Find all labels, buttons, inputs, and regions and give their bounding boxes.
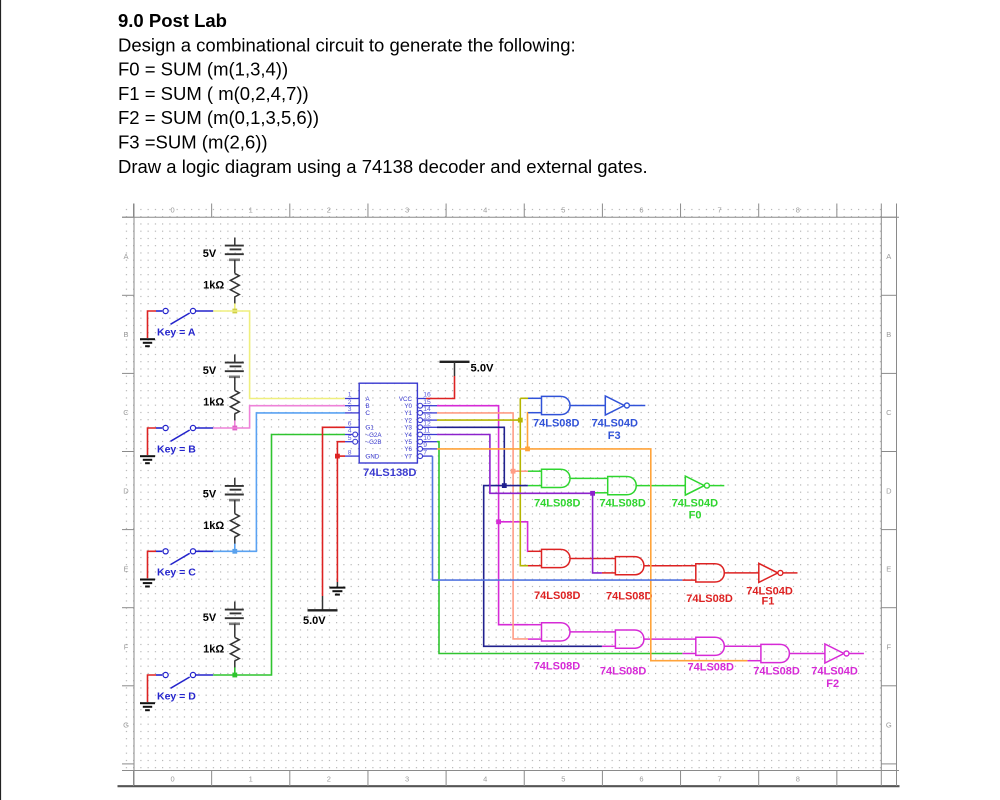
svg-text:Key = A: Key = A — [157, 326, 196, 338]
svg-text:C: C — [123, 408, 129, 417]
svg-text:74LS08D: 74LS08D — [753, 665, 800, 677]
wire F1 inverter output — [783, 572, 798, 574]
switch J (D) Key = D — [156, 672, 213, 688]
svg-text:1kΩ: 1kΩ — [203, 644, 224, 656]
svg-text:16: 16 — [423, 392, 431, 399]
ground symbol (D switch) — [140, 703, 155, 710]
svg-text:Design a combinational circuit: Design a combinational circuit to genera… — [118, 34, 576, 55]
svg-text:~G2A: ~G2A — [366, 432, 383, 439]
inverter 74LS04D (F1 output) — [759, 563, 783, 582]
svg-text:0: 0 — [170, 775, 174, 784]
svg-text:74LS04D: 74LS04D — [811, 665, 858, 677]
svg-text:9.0 Post Lab: 9.0 Post Lab — [118, 10, 227, 31]
svg-text:74LS08D: 74LS08D — [600, 665, 647, 677]
battery V (B chain) 5V — [225, 355, 244, 391]
wire net Y5 (decoder pin10 to F2 AND3) — [437, 442, 682, 654]
wire F3 AND to inverter — [570, 405, 605, 407]
svg-text:E: E — [123, 564, 128, 573]
decoder U1 left pin stubs and numbers — [345, 392, 359, 457]
wire net A : switch to decoder — [213, 311, 345, 399]
svg-text:Y3: Y3 — [404, 425, 412, 432]
svg-text:F0 = SUM (m(1,3,4)): F0 = SUM (m(1,3,4)) — [118, 59, 288, 80]
decoder U1 pin name labels — [366, 396, 413, 461]
svg-text:Key = D: Key = D — [157, 690, 196, 702]
wire net Y2 branch to F3 AND — [520, 397, 528, 399]
wire F3 inverter output — [629, 405, 645, 407]
ruler numbers top — [170, 206, 799, 215]
inverter 74LS04D (F0 output) — [685, 476, 709, 495]
svg-text:F1: F1 — [762, 595, 775, 607]
wire net Y1 branch to F0 AND1 — [513, 470, 528, 472]
junction Y0 — [496, 519, 501, 524]
wire net Y1 (decoder pin14 to F0 AND1 / F2 AND1) — [437, 413, 528, 639]
junction node (A) — [232, 309, 237, 314]
svg-text:0: 0 — [170, 206, 174, 215]
svg-text:1kΩ: 1kΩ — [203, 280, 224, 292]
junction GND net — [335, 454, 340, 459]
wire ground to switch (C) — [148, 551, 157, 578]
svg-text:6: 6 — [639, 206, 643, 215]
svg-text:A: A — [886, 252, 891, 261]
wire net Y6 branch to F3 AND — [527, 413, 530, 449]
svg-text:Key = B: Key = B — [157, 443, 196, 455]
5.0V power source (bottom) — [308, 596, 338, 610]
svg-text:5V: 5V — [203, 488, 217, 500]
svg-text:B: B — [366, 403, 370, 410]
svg-text:D: D — [886, 486, 892, 495]
AND gate 74LS08D (F0 stage 2) — [594, 477, 636, 495]
wire F1 AND3 out to inverter — [724, 572, 759, 574]
wire F0 AND2 out to inverter — [636, 485, 685, 487]
ruler letters left — [123, 252, 129, 730]
document heading text block — [118, 10, 648, 177]
svg-text:2: 2 — [327, 775, 331, 784]
svg-text:4: 4 — [483, 206, 487, 215]
AND gate 74LS08D (F2 stage 1) — [528, 623, 570, 641]
svg-text:5: 5 — [561, 775, 565, 784]
svg-text:F3: F3 — [608, 430, 621, 442]
svg-text:74LS08D: 74LS08D — [534, 661, 581, 673]
svg-text:1: 1 — [249, 206, 253, 215]
svg-text:5V: 5V — [203, 248, 217, 260]
switch J (A) Key = A — [156, 308, 213, 324]
ground symbol (decoder GND) — [329, 582, 345, 595]
svg-text:7: 7 — [718, 775, 722, 784]
svg-text:74LS08D: 74LS08D — [534, 497, 581, 509]
wire net Y7 (decoder pin7 to F1 AND3) — [433, 456, 683, 580]
svg-text:Y7: Y7 — [404, 453, 412, 460]
svg-text:15: 15 — [423, 399, 431, 406]
ruler numbers bottom — [170, 775, 799, 784]
AND gate 74LS08D (F2 stage 3) — [682, 637, 724, 655]
svg-text:GND: GND — [366, 453, 380, 460]
svg-text:D: D — [123, 486, 129, 495]
svg-text:74LS04D: 74LS04D — [672, 497, 719, 509]
resistor 1k&#937; (A chain) — [230, 273, 239, 303]
svg-text:13: 13 — [423, 413, 431, 420]
wire net Y0 branch to F1 AND1 — [499, 522, 528, 552]
AND gate 74LS08D (F1 stage 1) — [528, 549, 570, 567]
svg-text:9: 9 — [423, 442, 427, 449]
junction node (D) — [232, 673, 237, 678]
svg-text:Y4: Y4 — [404, 432, 412, 439]
svg-text:3: 3 — [405, 206, 409, 215]
svg-text:Y0: Y0 — [404, 403, 412, 410]
schematic grid dots — [120, 204, 881, 771]
svg-text:F2 = SUM (m(0,1,3,5,6)): F2 = SUM (m(0,1,3,5,6)) — [118, 107, 319, 128]
svg-text:74LS08D: 74LS08D — [533, 417, 580, 429]
svg-text:A: A — [123, 252, 128, 261]
junction node (B) — [232, 426, 237, 431]
svg-text:1: 1 — [249, 775, 253, 784]
wire resistor to switch node (D) — [234, 667, 236, 675]
svg-text:7: 7 — [718, 206, 722, 215]
battery V (A chain) 5V — [225, 238, 244, 274]
ruler letters right — [886, 252, 892, 730]
ground symbol (B switch) — [140, 456, 155, 463]
svg-text:8: 8 — [348, 449, 352, 456]
junction Y2 — [518, 418, 523, 423]
wire resistor to switch node (C) — [234, 544, 236, 552]
resistor 1k&#937; (B chain) — [230, 390, 239, 420]
wire net Y2 (decoder pin13 to F3 AND / F1 AND1) — [437, 398, 528, 565]
wire F2 AND2 out to AND3 — [644, 638, 682, 640]
junction Y3 — [502, 483, 507, 488]
wire VCC net to pin 16 — [426, 376, 455, 399]
svg-text:F0: F0 — [689, 509, 702, 521]
wire ground to switch (D) — [148, 675, 157, 702]
svg-text:1kΩ: 1kΩ — [203, 520, 224, 532]
svg-text:74LS138D: 74LS138D — [363, 467, 417, 479]
wire F2 inverter output — [849, 653, 864, 655]
svg-text:74LS08D: 74LS08D — [688, 662, 735, 674]
decoder U1 74LS138D body — [359, 383, 417, 463]
svg-text:1kΩ: 1kΩ — [203, 397, 224, 409]
svg-text:Y6: Y6 — [404, 446, 412, 453]
resistor 1k&#937; (C chain) — [230, 514, 239, 544]
wire net B : switch to decoder — [213, 406, 345, 428]
5.0V power source (top, VCC) — [440, 362, 470, 376]
svg-text:B: B — [886, 330, 891, 339]
svg-text:Draw a logic diagram using a 7: Draw a logic diagram using a 74138 decod… — [118, 156, 648, 177]
svg-text:5: 5 — [348, 435, 352, 442]
svg-text:Y1: Y1 — [404, 410, 412, 417]
svg-text:G1: G1 — [366, 425, 375, 432]
wire F0 inverter output — [709, 485, 724, 487]
svg-text:F: F — [124, 643, 129, 652]
svg-text:5V: 5V — [203, 612, 217, 624]
wire F2 AND4 out to inverter — [789, 653, 825, 655]
AND gate 74LS08D (F1 stage 3) — [682, 564, 724, 582]
ground symbol (C switch) — [140, 580, 155, 587]
wire F2 AND3 out to AND4 — [724, 645, 747, 647]
wire F1 AND1 out to AND2 — [570, 558, 602, 560]
wire F1 AND2 out to AND3 — [644, 565, 682, 567]
wire net Y4 (decoder pin11 to F0 AND2 / F1 AND2) — [437, 435, 594, 494]
svg-text:F: F — [887, 643, 892, 652]
wire net D : switch to decoder — [213, 435, 345, 676]
wire net Y3 branch to F2 AND2 — [484, 486, 602, 647]
svg-text:Y2: Y2 — [404, 417, 412, 424]
ground symbol (A switch) — [140, 339, 155, 346]
battery V (C chain) 5V — [225, 478, 244, 514]
svg-text:8: 8 — [796, 206, 800, 215]
AND gate 74LS08D (F0 stage 1) — [528, 469, 570, 487]
svg-text:F2: F2 — [826, 678, 839, 690]
left page edge line — [0, 0, 2, 800]
svg-text:7: 7 — [423, 449, 427, 456]
AND gate 74LS08D (F2 stage 4) — [747, 644, 789, 662]
svg-text:74LS08D: 74LS08D — [534, 590, 581, 602]
svg-text:Key = C: Key = C — [157, 567, 196, 579]
wire resistor to switch node (A) — [234, 303, 236, 311]
svg-text:6: 6 — [639, 775, 643, 784]
svg-text:12: 12 — [423, 421, 431, 428]
svg-text:8: 8 — [796, 775, 800, 784]
junction node (C) — [232, 549, 237, 554]
battery V (D chain) 5V — [225, 602, 244, 638]
svg-text:F1 = SUM ( m(0,2,4,7)): F1 = SUM ( m(0,2,4,7)) — [118, 83, 309, 104]
svg-text:C: C — [366, 410, 371, 417]
AND gate 74LS08D (F2 stage 2) — [602, 630, 644, 648]
svg-text:74LS04D: 74LS04D — [592, 417, 639, 429]
inverter 74LS04D (F2 output) — [825, 644, 849, 663]
svg-text:10: 10 — [423, 435, 431, 442]
svg-text:1: 1 — [348, 392, 352, 399]
wire net Y3 (decoder pin12 to F0 AND1 / F2 AND2) — [437, 427, 528, 485]
junction Y1 — [511, 469, 516, 474]
wire F2 AND1 out to AND2 — [570, 631, 602, 633]
svg-text:3: 3 — [405, 775, 409, 784]
svg-text:3: 3 — [348, 406, 352, 413]
svg-text:2: 2 — [327, 206, 331, 215]
inverter 74LS04D (F3 output) — [605, 396, 629, 415]
wire ground to switch (B) — [148, 428, 157, 455]
svg-text:~G2B: ~G2B — [366, 439, 382, 446]
wire net Y4 branch to F1 AND2 — [593, 493, 602, 573]
wire ~G2B and GND to ground — [337, 442, 345, 582]
svg-text:11: 11 — [423, 428, 430, 435]
svg-text:B: B — [123, 330, 128, 339]
svg-text:4: 4 — [483, 775, 487, 784]
wire GND pin stub — [337, 455, 345, 457]
svg-text:5.0V: 5.0V — [471, 362, 495, 374]
wire net Y6 (decoder pin9 to F3 AND / F2 AND4) — [437, 449, 747, 661]
svg-text:Y5: Y5 — [404, 439, 412, 446]
svg-text:5V: 5V — [203, 365, 217, 377]
svg-text:5: 5 — [561, 206, 565, 215]
svg-text:4: 4 — [348, 428, 352, 435]
sheet ruler frame lines — [118, 204, 900, 787]
AND gate 74LS08D (F3 stage) — [528, 396, 570, 414]
resistor 1k&#937; (D chain) — [230, 637, 239, 667]
decoder U1 right pin stubs and numbers — [417, 392, 437, 459]
wire ground to switch (A) — [148, 311, 157, 338]
svg-text:5.0V: 5.0V — [303, 615, 326, 627]
junction Y6 — [525, 447, 530, 452]
svg-text:G: G — [886, 721, 892, 730]
svg-text:C: C — [886, 408, 892, 417]
svg-text:G: G — [123, 721, 129, 730]
svg-text:VCC: VCC — [399, 396, 413, 403]
AND gate 74LS08D (F1 stage 2) — [602, 557, 644, 575]
svg-text:74LS08D: 74LS08D — [606, 591, 653, 603]
wire F0 AND1 out to AND2 — [570, 477, 594, 479]
svg-text:14: 14 — [423, 406, 431, 413]
svg-text:F3 =SUM (m(2,6)): F3 =SUM (m(2,6)) — [118, 132, 268, 153]
svg-text:6: 6 — [348, 421, 352, 428]
switch J (B) Key = B — [156, 425, 213, 441]
svg-text:74LS08D: 74LS08D — [599, 497, 646, 509]
switch J (C) Key = C — [156, 549, 213, 565]
wire net Y0 (decoder pin15 to F2 AND1 and F1 AND1) — [437, 406, 528, 625]
wire resistor to switch node (B) — [234, 420, 236, 428]
wire G1 enable to 5.0V source — [323, 427, 346, 596]
svg-text:74LS08D: 74LS08D — [686, 593, 733, 605]
svg-text:2: 2 — [348, 399, 352, 406]
svg-text:E: E — [886, 564, 891, 573]
wire net C : switch to decoder — [213, 413, 345, 551]
junction Y4 — [590, 491, 595, 496]
